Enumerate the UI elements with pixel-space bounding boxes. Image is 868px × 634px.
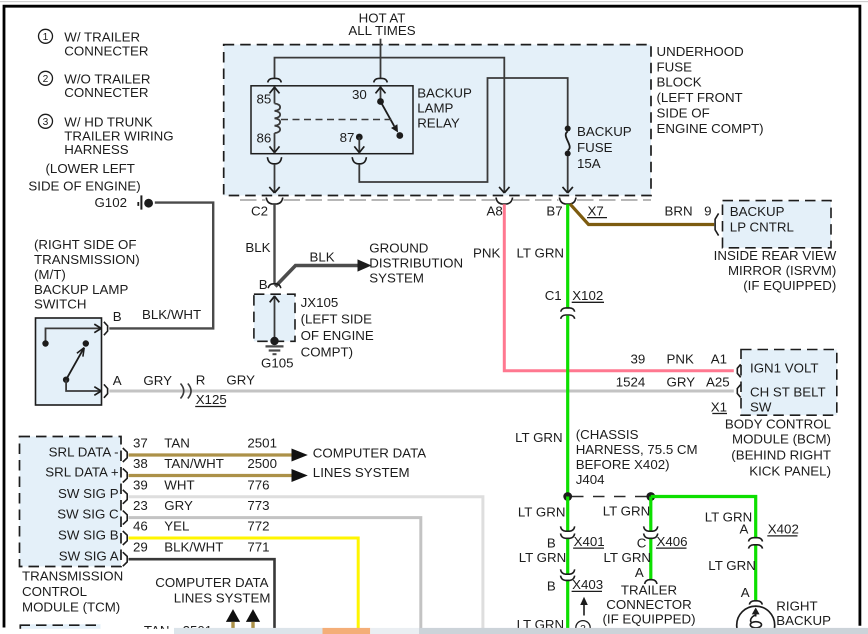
label: (CHASSIS HARNESS, 75.5 CM BEFORE X402) J404 xyxy=(576,427,698,487)
svg-text:LT GRN: LT GRN xyxy=(517,245,565,260)
svg-text:CONNECTER: CONNECTER xyxy=(64,85,148,100)
circled 3 marker xyxy=(576,621,590,634)
svg-text:BEFORE X402): BEFORE X402) xyxy=(576,457,670,472)
svg-text:B: B xyxy=(259,277,268,292)
svg-text:LT GRN: LT GRN xyxy=(604,550,652,565)
label: JX105 (LEFT SIDE OF ENGINE COMPT) xyxy=(301,295,374,360)
switch internals xyxy=(42,324,101,395)
svg-text:PNK: PNK xyxy=(473,245,500,260)
svg-text:X1: X1 xyxy=(711,399,727,414)
svg-text:C: C xyxy=(637,535,647,550)
relay coil (85-86) with entry/exit arrows xyxy=(270,87,281,153)
svg-text:CONNECTER: CONNECTER xyxy=(64,43,148,58)
svg-text:SIDE OF: SIDE OF xyxy=(657,106,710,121)
svg-text:BACKUP: BACKUP xyxy=(776,613,831,628)
terminal A8 xyxy=(496,198,513,205)
label: COMPUTER DATA LINES SYSTEM xyxy=(313,446,426,481)
svg-text:C2: C2 xyxy=(251,203,268,218)
svg-text:X403: X403 xyxy=(572,577,603,592)
pin 46 row labels: 46 YEL 772 xyxy=(133,519,270,534)
svg-text:2501: 2501 xyxy=(247,436,277,451)
labels middle branch xyxy=(603,504,688,581)
svg-text:DISTRIBUTION: DISTRIBUTION xyxy=(369,255,463,270)
svg-text:(LOWER LEFT: (LOWER LEFT xyxy=(46,161,135,176)
svg-text:87: 87 xyxy=(340,130,355,145)
svg-text:COMPT): COMPT) xyxy=(301,344,353,359)
arrow at A8 exit xyxy=(499,187,509,193)
terminal C2 xyxy=(266,198,283,205)
svg-text:LT GRN: LT GRN xyxy=(603,504,651,519)
svg-text:23: 23 xyxy=(133,498,148,513)
terminal 9 of backup lp cntrl xyxy=(715,213,719,235)
relay pin 87 contact dot and exit arrow xyxy=(354,134,364,153)
svg-text:A8: A8 xyxy=(487,203,503,218)
svg-text:GRY: GRY xyxy=(226,373,255,388)
svg-text:BACKUP: BACKUP xyxy=(417,86,472,101)
wire: LT GRN right branch to right backup lamp xyxy=(651,497,756,601)
svg-text:BLK: BLK xyxy=(245,240,270,255)
svg-text:R: R xyxy=(196,373,206,388)
svg-text:85: 85 xyxy=(257,91,272,106)
pin 23 row labels: 23 GRY 773 xyxy=(133,498,270,513)
svg-text:(IF EQUIPPED): (IF EQUIPPED) xyxy=(743,278,836,293)
connector label X1 xyxy=(711,399,727,414)
svg-text:J404: J404 xyxy=(576,472,605,487)
svg-text:3: 3 xyxy=(43,117,49,128)
wire: BLK/WHT from backup lamp switch B to ground G102 xyxy=(109,203,213,329)
inline connector X102 xyxy=(545,288,604,319)
splice node J404 xyxy=(563,492,655,501)
terminal (relay pin 87 bottom) xyxy=(352,157,366,164)
svg-text:LT GRN: LT GRN xyxy=(708,558,756,573)
svg-text:37: 37 xyxy=(133,436,148,451)
terminal B of switch xyxy=(104,322,108,335)
wire: fuse down to fuse block terminal B7 xyxy=(567,157,569,193)
wire: GRY 773 xyxy=(129,518,421,629)
svg-text:SW SIG C: SW SIG C xyxy=(57,507,119,522)
svg-text:BACKUP LAMP: BACKUP LAMP xyxy=(34,282,128,297)
svg-text:BRN: BRN xyxy=(665,204,693,219)
wire: YEL 772 xyxy=(129,538,359,628)
wire: LT GRN left branch to X401/X403 xyxy=(566,497,569,629)
pin 37 row labels: 37 TAN 2501 xyxy=(133,436,277,451)
inline connector X125 on GRY wire xyxy=(181,373,256,408)
svg-text:INSIDE REAR VIEW: INSIDE REAR VIEW xyxy=(714,248,837,263)
wire: LT GRN X102 to junction J404 xyxy=(566,316,569,497)
svg-text:LT GRN: LT GRN xyxy=(519,550,567,565)
svg-text:LAMP: LAMP xyxy=(417,101,453,116)
labels: 1524 GRY A25 xyxy=(616,375,730,390)
svg-text:W/ HD TRUNK: W/ HD TRUNK xyxy=(64,115,153,130)
svg-text:X402: X402 xyxy=(768,522,799,537)
wire: TAN 2501 to computer data lines xyxy=(129,453,292,456)
svg-text:MIRROR (ISRVM): MIRROR (ISRVM) xyxy=(728,263,836,278)
svg-text:LINES SYSTEM: LINES SYSTEM xyxy=(313,465,410,480)
svg-text:LP CNTRL: LP CNTRL xyxy=(730,219,794,234)
wire: LT GRN from B7 down (upper segment) xyxy=(566,204,569,308)
label: (LOWER LEFT SIDE OF ENGINE) xyxy=(28,161,140,193)
svg-text:(LEFT SIDE: (LEFT SIDE xyxy=(301,311,373,326)
svg-text:FUSE: FUSE xyxy=(657,59,693,74)
svg-text:39: 39 xyxy=(133,477,148,492)
svg-text:C1: C1 xyxy=(545,288,562,303)
svg-text:JX105: JX105 xyxy=(301,295,339,310)
fuse F (backup fuse 15A) xyxy=(565,126,571,157)
label: TRAILER CONNECTOR (IF EQUIPPED) xyxy=(602,582,695,626)
inline connector X403 xyxy=(561,569,575,580)
svg-text:(M/T): (M/T) xyxy=(34,267,66,282)
connector label X7 xyxy=(587,203,607,218)
svg-text:G102: G102 xyxy=(94,195,127,210)
svg-text:(IF EQUIPPED): (IF EQUIPPED) xyxy=(602,612,695,627)
svg-text:1524: 1524 xyxy=(616,375,646,390)
wire: GRY from switch A to BCM A25 xyxy=(109,390,734,393)
label: TRANSMISSION CONTROL MODULE (TCM) xyxy=(22,569,123,615)
svg-text:TRANSMISSION: TRANSMISSION xyxy=(22,569,123,584)
partial bottom row labels TAN 2501 (cut off) xyxy=(144,623,212,634)
svg-text:(LEFT FRONT: (LEFT FRONT xyxy=(657,90,743,105)
lamp: right backup lamp xyxy=(737,606,775,634)
svg-text:BACKUP: BACKUP xyxy=(577,124,632,139)
svg-text:2: 2 xyxy=(43,74,49,85)
terminal (relay pin 86 bottom) xyxy=(267,157,281,164)
svg-text:MODULE (TCM): MODULE (TCM) xyxy=(22,600,120,615)
terminal A of switch xyxy=(104,384,108,397)
svg-text:TAN: TAN xyxy=(164,436,190,451)
backup lamp switch S1 box xyxy=(36,318,102,405)
note 3: W/ HD TRUNK TRAILER WIRING HARNESS xyxy=(39,114,174,157)
label: (RIGHT SIDE OF TRANSMISSION) (M/T) BACKUP LAMP SWITCH xyxy=(34,237,140,312)
svg-text:HARNESS, 75.5 CM: HARNESS, 75.5 CM xyxy=(576,442,698,457)
svg-text:CH ST BELT: CH ST BELT xyxy=(750,385,826,400)
svg-text:BODY CONTROL: BODY CONTROL xyxy=(725,417,831,432)
inline connector X406 xyxy=(644,526,658,538)
label: BACKUP FUSE 15A xyxy=(577,124,632,171)
wire: PNK from A8 to BCM A1 xyxy=(504,204,734,371)
terminal B7 xyxy=(559,198,576,205)
connector face line below fuse block xyxy=(240,199,651,201)
svg-text:WHT: WHT xyxy=(164,477,194,492)
svg-text:15A: 15A xyxy=(577,156,601,171)
svg-text:FUSE: FUSE xyxy=(577,140,613,155)
svg-text:ALL TIMES: ALL TIMES xyxy=(348,23,415,38)
svg-text:BLOCK: BLOCK xyxy=(657,75,702,90)
svg-text:GRY: GRY xyxy=(143,373,172,388)
svg-text:9: 9 xyxy=(704,204,711,219)
label: BACKUP LP CNTRL xyxy=(730,204,794,234)
label: INSIDE REAR VIEW MIRROR (ISRVM) (IF EQUIPPED) xyxy=(714,248,837,293)
svg-text:771: 771 xyxy=(247,540,269,555)
up arrow TAN wire 2 to computer data lines xyxy=(246,609,260,628)
note 1: W/ TRAILER CONNECTER xyxy=(39,29,149,58)
svg-text:(CHASSIS: (CHASSIS xyxy=(576,427,639,442)
svg-text:A1: A1 xyxy=(711,351,727,366)
TCM pin labels (right aligned inside box) xyxy=(45,444,119,563)
labels right branch xyxy=(705,510,799,600)
svg-text:773: 773 xyxy=(247,498,269,513)
wire: bus from relay coil pin 85 top to fuse block output A8 xyxy=(275,58,505,193)
svg-text:TRANSMISSION): TRANSMISSION) xyxy=(34,252,140,267)
relay switch arm (30-87) xyxy=(376,87,404,139)
svg-text:A: A xyxy=(740,522,749,537)
dashed actuation line between coil and switch xyxy=(281,119,393,121)
svg-text:YEL: YEL xyxy=(164,519,189,534)
label: RIGHT BACKUP xyxy=(776,598,831,628)
note 2: W/O TRAILER CONNECTER xyxy=(39,71,151,100)
svg-text:A: A xyxy=(635,565,644,580)
backup lp cntrl module (dashed box) xyxy=(723,201,832,248)
svg-text:COMPUTER DATA: COMPUTER DATA xyxy=(155,575,268,590)
svg-text:B: B xyxy=(113,309,122,324)
wire: LT GRN middle branch to trailer connector xyxy=(645,497,657,584)
labels left branch xyxy=(517,504,605,632)
note 3 reference arrow xyxy=(580,597,588,616)
wire: WHT 776 xyxy=(129,497,483,629)
svg-text:G105: G105 xyxy=(261,355,294,370)
pin 29 row labels: 29 BLK/WHT 771 xyxy=(133,540,270,555)
svg-text:IGN1 VOLT: IGN1 VOLT xyxy=(750,360,818,375)
label: UNDERHOOD FUSE BLOCK (LEFT FRONT SIDE OF ENGINE COMPT) xyxy=(657,44,764,136)
svg-text:UNDERHOOD: UNDERHOOD xyxy=(657,44,744,59)
svg-text:1: 1 xyxy=(43,32,49,43)
label: COMPUTER DATA LINES SYSTEM (bottom) xyxy=(155,575,270,605)
wire: BRN from B7/X7 to backup lp cntrl pin 9 xyxy=(570,204,714,225)
transmission control module TCM (dashed box) xyxy=(20,437,122,567)
label: BODY CONTROL MODULE (BCM) (BEHIND RIGHT KICK PANEL) xyxy=(725,417,831,479)
svg-text:776: 776 xyxy=(247,477,269,492)
terminal A1 of BCM xyxy=(737,364,740,377)
ground G105 xyxy=(261,337,294,371)
svg-text:SRL DATA +: SRL DATA + xyxy=(45,464,119,479)
svg-text:A25: A25 xyxy=(706,375,730,390)
svg-text:B: B xyxy=(547,535,556,550)
svg-text:46: 46 xyxy=(133,519,148,534)
svg-text:SYSTEM: SYSTEM xyxy=(369,270,424,285)
terminal A25 of BCM xyxy=(737,385,740,398)
svg-text:LINES SYSTEM: LINES SYSTEM xyxy=(174,590,271,605)
svg-text:CONNECTOR: CONNECTOR xyxy=(606,597,691,612)
wire: relay 86 down to fuse block terminal C2 xyxy=(274,164,276,193)
svg-text:HARNESS: HARNESS xyxy=(64,142,128,157)
svg-text:KICK PANEL): KICK PANEL) xyxy=(749,463,831,478)
svg-text:86: 86 xyxy=(257,130,272,145)
svg-text:29: 29 xyxy=(133,540,148,555)
svg-text:SW SIG B: SW SIG B xyxy=(58,528,119,543)
pin 38 row labels: 38 TAN/WHT 2500 xyxy=(133,456,277,471)
svg-text:772: 772 xyxy=(247,519,269,534)
svg-text:SRL DATA -: SRL DATA - xyxy=(49,444,119,459)
svg-text:X7: X7 xyxy=(588,203,604,218)
svg-text:CONTROL: CONTROL xyxy=(22,584,87,599)
svg-text:GROUND: GROUND xyxy=(369,240,428,255)
wire: BLK branch to ground distribution system xyxy=(275,266,358,287)
svg-text:SW: SW xyxy=(750,399,772,414)
inline connector X401 xyxy=(561,526,575,538)
terminal B at JX105 xyxy=(268,284,281,288)
wire: TAN/WHT 2500 to computer data lines xyxy=(129,474,292,477)
underhood fuse block (dashed box) xyxy=(224,45,651,196)
junction block JX105 (dashed box) xyxy=(254,294,295,341)
terminal A at right backup lamp xyxy=(749,601,762,605)
bottom UI band xyxy=(174,628,868,634)
second module dashed box (cut off at bottom) xyxy=(20,624,101,634)
label: BACKUP LAMP RELAY xyxy=(417,86,472,131)
svg-text:GRY: GRY xyxy=(667,375,696,390)
svg-text:TRAILER: TRAILER xyxy=(621,582,677,597)
svg-text:RIGHT: RIGHT xyxy=(776,598,817,613)
svg-text:A: A xyxy=(113,373,122,388)
svg-text:39: 39 xyxy=(631,351,646,366)
svg-text:MODULE (BCM): MODULE (BCM) xyxy=(732,431,831,446)
terminal (relay pin 85) xyxy=(268,78,282,82)
svg-text:BLK: BLK xyxy=(310,249,335,264)
svg-text:BLK/WHT: BLK/WHT xyxy=(164,540,223,555)
inline connector X402 xyxy=(749,538,763,549)
svg-text:BLK/WHT: BLK/WHT xyxy=(142,307,201,322)
svg-text:30: 30 xyxy=(352,87,367,102)
svg-text:B: B xyxy=(547,579,556,594)
svg-text:LT GRN: LT GRN xyxy=(518,504,566,519)
svg-text:X401: X401 xyxy=(574,534,605,549)
wire: BLK/WHT 771 xyxy=(129,559,275,628)
wire: relay 87 to backup fuse xyxy=(359,78,567,182)
svg-text:38: 38 xyxy=(133,456,148,471)
relay K (backup lamp relay) box xyxy=(251,86,413,154)
terminal (relay pin 30) xyxy=(374,78,388,82)
svg-text:PNK: PNK xyxy=(667,351,694,366)
TCM terminals xyxy=(123,448,127,566)
svg-text:ENGINE COMPT): ENGINE COMPT) xyxy=(657,121,764,136)
label: HOT AT ALL TIMES xyxy=(348,10,415,38)
wire: BLK from C2 down to junction JX105 xyxy=(273,204,275,283)
label: GROUND DISTRIBUTION SYSTEM xyxy=(369,240,463,285)
svg-text:(BEHIND RIGHT: (BEHIND RIGHT xyxy=(731,448,831,463)
svg-text:X125: X125 xyxy=(196,392,227,407)
svg-text:OF ENGINE: OF ENGINE xyxy=(301,328,374,343)
white strip bottom left xyxy=(6,629,174,634)
svg-text:BACKUP: BACKUP xyxy=(730,204,785,219)
svg-text:SIDE OF ENGINE): SIDE OF ENGINE) xyxy=(28,179,140,194)
svg-text:SWITCH: SWITCH xyxy=(34,297,86,312)
svg-text:(RIGHT SIDE OF: (RIGHT SIDE OF xyxy=(34,237,136,252)
pin 39 row labels: 39 WHT 776 xyxy=(133,477,270,492)
svg-text:2500: 2500 xyxy=(247,456,277,471)
label: IGN1 VOLT / CH ST BELT SW xyxy=(750,360,826,414)
wire: HOT AT ALL TIMES feed down to relay pin 30 xyxy=(380,39,382,79)
svg-text:TAN/WHT: TAN/WHT xyxy=(164,456,224,471)
wire inside JX105 with up arrow xyxy=(270,296,280,341)
body control module BCM (dashed box) xyxy=(741,350,837,416)
svg-text:A: A xyxy=(741,585,750,600)
svg-text:SW SIG A: SW SIG A xyxy=(59,548,119,563)
svg-text:SW SIG P: SW SIG P xyxy=(58,486,119,501)
ground G102 xyxy=(94,195,153,210)
svg-text:X406: X406 xyxy=(657,534,688,549)
svg-text:LT GRN: LT GRN xyxy=(515,430,563,445)
svg-text:B7: B7 xyxy=(546,203,562,218)
svg-text:X102: X102 xyxy=(572,288,603,303)
svg-text:RELAY: RELAY xyxy=(417,115,460,130)
up arrow TAN wire 1 to computer data lines xyxy=(226,609,240,628)
svg-text:COMPUTER DATA: COMPUTER DATA xyxy=(313,446,426,461)
labels: 39 PNK A1 xyxy=(631,351,727,366)
svg-text:W/O TRAILER: W/O TRAILER xyxy=(64,71,150,86)
svg-text:GRY: GRY xyxy=(164,498,193,513)
